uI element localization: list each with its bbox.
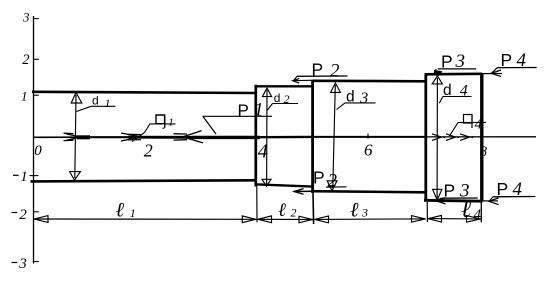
svg-text:3: 3 xyxy=(22,10,30,25)
svg-text:1: 1 xyxy=(105,96,111,110)
svg-text:d: d xyxy=(443,82,452,99)
svg-text:1: 1 xyxy=(20,169,28,185)
svg-text:1: 1 xyxy=(254,100,264,121)
svg-text:3: 3 xyxy=(359,90,368,107)
svg-text:P: P xyxy=(313,168,325,188)
svg-text:1: 1 xyxy=(168,116,174,128)
svg-text:ℓ: ℓ xyxy=(350,200,359,222)
svg-text:3: 3 xyxy=(18,256,27,272)
svg-text:2: 2 xyxy=(22,52,29,68)
svg-text:2: 2 xyxy=(328,170,338,191)
svg-text:6: 6 xyxy=(364,141,373,160)
svg-text:4: 4 xyxy=(460,83,468,100)
svg-text:3: 3 xyxy=(455,51,466,72)
svg-text:4: 4 xyxy=(475,117,483,133)
svg-text:0: 0 xyxy=(34,143,42,159)
svg-text:4: 4 xyxy=(258,140,268,162)
svg-text:P: P xyxy=(238,101,249,120)
svg-text:2: 2 xyxy=(330,61,340,82)
svg-text:1: 1 xyxy=(130,206,136,220)
svg-text:P: P xyxy=(312,60,324,80)
svg-text:P: P xyxy=(497,179,509,199)
svg-text:1: 1 xyxy=(21,89,28,104)
svg-text:d: d xyxy=(346,88,355,105)
svg-text:4: 4 xyxy=(513,179,523,200)
svg-text:2: 2 xyxy=(284,92,290,106)
svg-text:ℓ: ℓ xyxy=(116,199,125,221)
svg-text:2: 2 xyxy=(291,206,297,220)
svg-text:2: 2 xyxy=(19,207,27,223)
svg-text:3: 3 xyxy=(361,206,368,220)
svg-text:8: 8 xyxy=(480,144,488,160)
svg-text:4: 4 xyxy=(474,207,482,223)
svg-text:P: P xyxy=(444,180,456,200)
svg-text:P: P xyxy=(501,50,513,70)
svg-text:4: 4 xyxy=(517,50,527,71)
svg-text:P: P xyxy=(441,51,453,71)
svg-text:d: d xyxy=(92,94,99,108)
svg-text:ℓ: ℓ xyxy=(461,197,471,223)
svg-text:2: 2 xyxy=(144,141,153,161)
svg-text:d: d xyxy=(274,91,281,105)
svg-text:ℓ: ℓ xyxy=(278,200,286,221)
